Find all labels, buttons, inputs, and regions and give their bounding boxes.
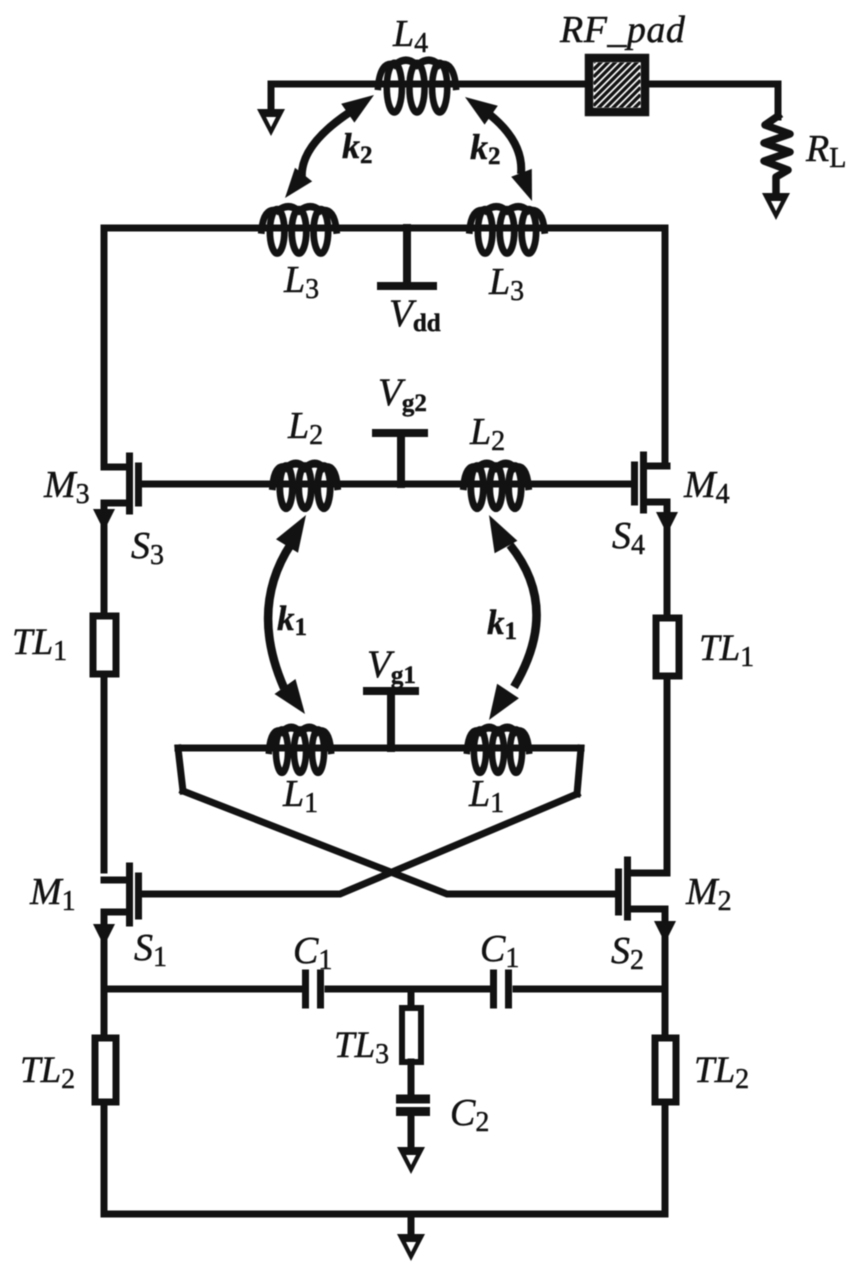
wire left frame upper [101,228,108,467]
inductor L4 [378,60,456,112]
resistor RL [764,116,790,196]
transistor M1 [29,866,139,923]
wire right frame upper [662,228,669,466]
k1 arc left [268,515,307,714]
svg-text:RF_pad: RF_pad [559,9,686,51]
wire right frame mid [664,676,671,873]
Vg2 bias [372,371,428,484]
wire bus row [104,986,299,993]
k2 arc left [285,95,374,198]
TL1 right [656,618,679,676]
wire cross diagonal to M2 [183,791,616,894]
source arrow S4 [664,502,671,619]
inductor L3 left [262,207,337,254]
transistor M3 [43,456,139,511]
inductor L3 right [470,207,545,254]
capacitor C1 right [480,928,519,1005]
TL2 left [101,989,108,1038]
ground bottom center [408,1214,415,1234]
inductor L2 right [464,464,529,509]
inductor L1 left [269,728,331,773]
transistor M4 [635,455,730,510]
wire L3 row [104,225,665,232]
capacitor C2 [396,1062,489,1148]
wire cross right edge [577,748,581,794]
transistor M2 [619,860,732,917]
TL2 right [662,986,669,1038]
source arrow S2 [662,909,669,986]
TL3 [334,989,421,1070]
k1 arc right [487,515,537,720]
wire cross diagonal to M1 [141,794,577,894]
RF_pad box [559,9,686,149]
wire bottom [104,1211,665,1218]
ground under C2 [397,1147,425,1174]
capacitor C1 left [293,930,332,1005]
source arrow S1 [101,912,108,989]
Vdd supply [377,228,441,337]
wire top row [271,81,778,88]
ground top-left [268,84,275,112]
source arrow S3 [101,503,108,616]
k2 arc right [465,97,532,201]
wire to RL [775,84,782,117]
wire cross left edge [178,748,183,791]
inductor L1 right [467,728,529,773]
wire L1 row [178,745,581,752]
inductor L2 left [273,464,338,509]
wire gate row M3-M4 [141,481,631,488]
Vg1 bias [363,643,419,748]
ground under RL [762,193,790,220]
TL1 left [93,616,116,674]
wire left frame mid [101,674,108,870]
